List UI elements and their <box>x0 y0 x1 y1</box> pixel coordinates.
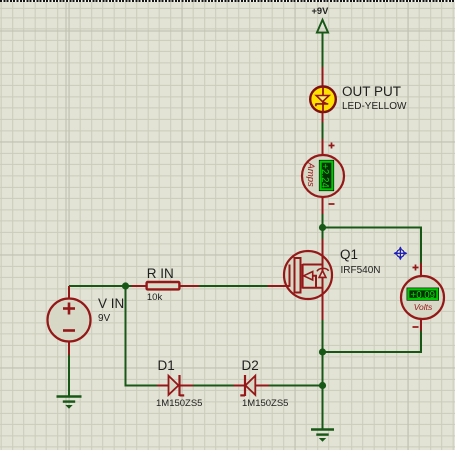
svg-text:+0.09: +0.09 <box>411 290 436 301</box>
svg-text:Amps: Amps <box>305 162 316 188</box>
svg-text:+2.24: +2.24 <box>319 163 330 188</box>
svg-text:Volts: Volts <box>414 302 433 312</box>
